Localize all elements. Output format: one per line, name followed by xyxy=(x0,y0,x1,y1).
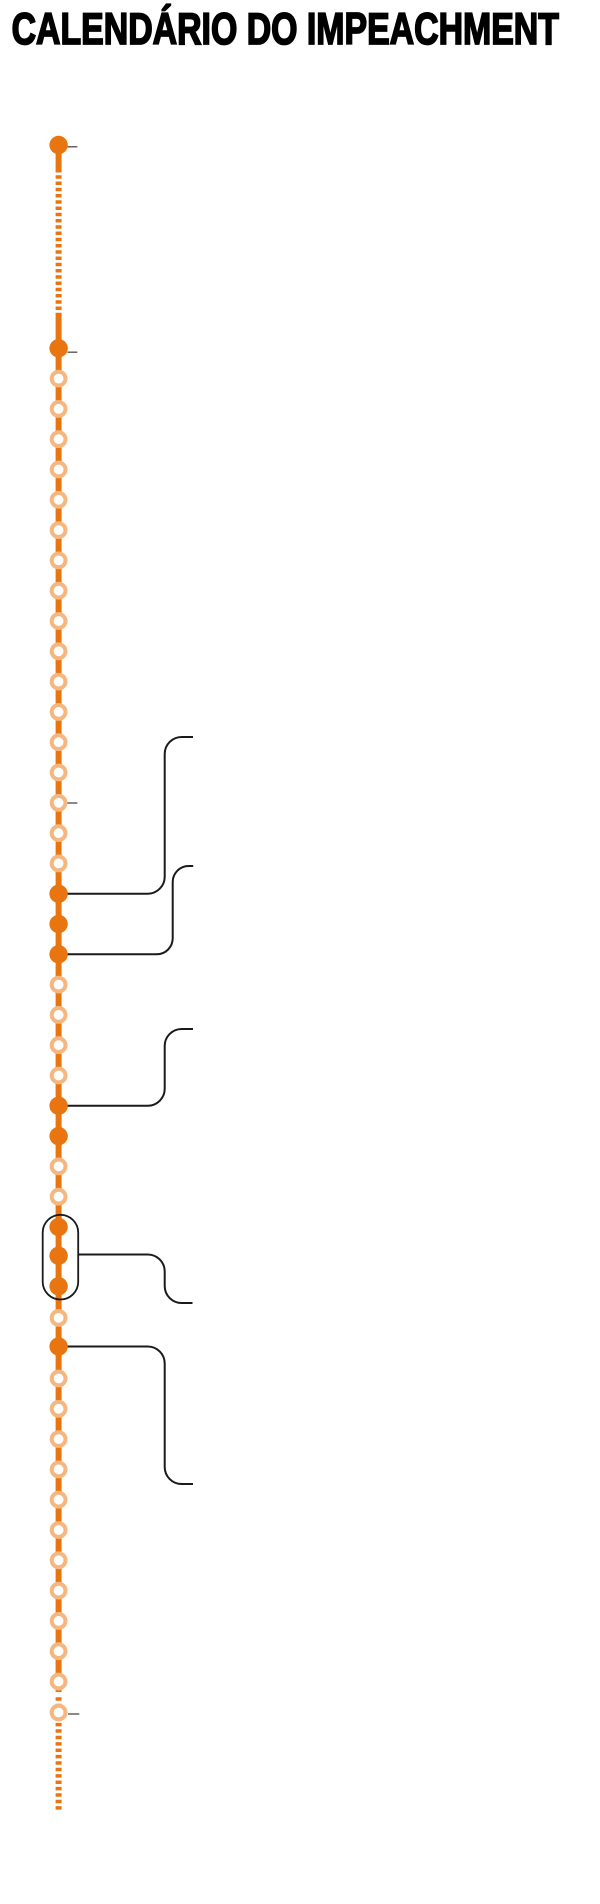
day dot (day 34, y=1378.5) xyxy=(52,1372,66,1386)
wire: upper dashed gap segment xyxy=(56,175,62,315)
svg-text:CALENDÁRIO DO IMPEACHMENT: CALENDÁRIO DO IMPEACHMENT xyxy=(12,5,559,55)
day dot (day 21, y=984.6) xyxy=(52,978,66,992)
wire: main solid spine xyxy=(56,314,62,1692)
tick mark at second milestone (y=348) xyxy=(68,352,78,353)
wire: top solid stub below first milestone xyxy=(56,145,62,173)
day dot (day 2, y=408.9) xyxy=(52,402,66,416)
connector bracket A (callout from milestone at y=894) xyxy=(62,737,193,894)
day dot (day 22, y=1014.9) xyxy=(52,1008,66,1022)
day dot (day 12, y=711.9) xyxy=(52,705,66,719)
day dot (day 1, y=378.6) xyxy=(52,372,66,386)
tick mark at bottom day dot y=1712 xyxy=(68,1713,79,1714)
connector bracket C (callout from milestone at y=1106) xyxy=(62,1029,193,1106)
wire: bottom dashed tail xyxy=(56,1697,62,1810)
tick mark at first milestone (y=145) xyxy=(68,146,78,147)
day dot (day 10, y=651.3) xyxy=(52,644,66,658)
day dot (day 40, y=1560.3) xyxy=(52,1553,66,1567)
day dot (day 4, y=469.5) xyxy=(52,463,66,477)
milestone dot (day 19, y=924.0) xyxy=(49,915,67,933)
milestone dot (day 20, y=954.3) xyxy=(49,945,67,963)
day dot (day 43, y=1651.2) xyxy=(52,1644,66,1658)
day dot (day 14, y=772.5) xyxy=(52,766,66,780)
day dot (day 39, y=1530.0) xyxy=(52,1523,66,1537)
day dot (day 36, y=1439.1) xyxy=(52,1432,66,1446)
connector bracket E (callout from milestone at y=1348) xyxy=(62,1347,193,1485)
day dot (day 16, y=833.1) xyxy=(52,826,66,840)
day dot (day 9, y=621.0) xyxy=(52,614,66,628)
milestone dot (day 31, y=1286.2) xyxy=(49,1277,67,1295)
day dot (day 28, y=1196.7) xyxy=(52,1190,66,1204)
milestone dot (day 30, y=1255.8) xyxy=(49,1247,67,1265)
day dot (day 15, y=802.8) xyxy=(52,796,66,810)
day dot (day 7, y=560.4) xyxy=(52,554,66,568)
milestone dot (day 33, y=1346.5) xyxy=(49,1337,67,1355)
pill highlight around three milestones (y=1215..1300) xyxy=(43,1215,78,1300)
day dot (day 44, y=1681.5) xyxy=(52,1675,66,1689)
day dot (day 11, y=681.6) xyxy=(52,675,66,689)
connector bracket B (callout from milestone at y=954) xyxy=(62,866,193,954)
day dot (day 13, y=742.2) xyxy=(52,735,66,749)
tick mark at day dot y=803 xyxy=(68,802,78,803)
day dot (day 37, y=1469.4) xyxy=(52,1463,66,1477)
day dot (day 38, y=1499.7) xyxy=(52,1493,66,1507)
milestone dot (day 26, y=1136.1) xyxy=(49,1127,67,1145)
day dot (bottom, y=1712) xyxy=(52,1706,66,1720)
connector bracket D (callout from pill group) xyxy=(79,1255,193,1304)
day dot (day 5, y=499.8) xyxy=(52,493,66,507)
day dot (day 27, y=1166.4) xyxy=(52,1160,66,1174)
day dot (day 42, y=1620.9) xyxy=(52,1614,66,1628)
day dot (day 23, y=1045.2) xyxy=(52,1038,66,1052)
milestone dot (day 25, y=1105.8) xyxy=(49,1097,67,1115)
day dot (day 8, y=590.7) xyxy=(52,584,66,598)
milestone dot (day 0, y=348.3) xyxy=(49,339,67,357)
day dot (day 24, y=1075.5) xyxy=(52,1069,66,1083)
milestone dot (day 29, y=1227.0) xyxy=(49,1218,67,1236)
day dot (day 3, y=439.2) xyxy=(52,432,66,446)
milestone dot (day 18, y=893.7) xyxy=(49,885,67,903)
day dot (day 41, y=1590.6) xyxy=(52,1584,66,1598)
day dot (day 32, y=1317.9) xyxy=(52,1311,66,1325)
day dot (day 35, y=1408.8) xyxy=(52,1402,66,1416)
day dot (day 17, y=863.4) xyxy=(52,857,66,871)
milestone dot 1 (top, y=145) xyxy=(49,136,67,154)
day dot (day 6, y=530.1) xyxy=(52,523,66,537)
